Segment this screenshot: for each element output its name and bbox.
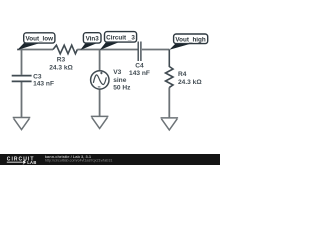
footer info text [45,154,113,163]
capacitor C4 [138,42,141,62]
svg-text:Vin3: Vin3 [86,35,100,42]
footer bar [0,154,220,165]
resistor R4 [166,50,174,88]
svg-text:143 nF: 143 nF [33,80,54,87]
node flag Vin3 pointer [80,43,97,50]
wire middle branch upper [99,50,101,72]
footer logo CIRCUIT LAB [7,156,37,165]
svg-text:C4: C4 [135,62,144,69]
label C3 value [33,73,54,87]
wire left branch upper [21,50,23,75]
capacitor C3 [12,76,32,82]
svg-text:Vout_low: Vout_low [26,35,54,42]
ground left [13,118,31,130]
svg-text:C3: C3 [33,73,42,80]
wire top horizontal segment left [17,49,53,51]
label R3 value [49,57,73,72]
node flag Circuit _3 [105,32,137,42]
svg-text:24.3 kΩ: 24.3 kΩ [49,64,73,71]
svg-text:http://circuitlab.com/c4vt1a87: http://circuitlab.com/c4vt1a87qx21v/lab3… [45,159,113,163]
svg-text:Vout_high: Vout_high [175,36,205,43]
node flag Vout_high pointer [169,44,191,50]
svg-text:50 Hz: 50 Hz [113,84,131,91]
ground right [161,118,179,130]
svg-text:24.3 kΩ: 24.3 kΩ [178,79,202,86]
node flag Vout_low pointer [17,43,40,50]
wire right branch lower [168,87,170,117]
label R4 value [178,71,202,86]
svg-text:sine: sine [113,77,127,84]
resistor R3 [53,45,77,54]
svg-text:Circuit _3: Circuit _3 [106,34,135,41]
svg-text:V3: V3 [113,69,121,76]
label C4 value [129,62,150,77]
svg-text:R4: R4 [178,71,187,78]
node flag Vout_low [24,33,55,43]
voltage source V3 [91,71,109,89]
wire top horizontal segment right [142,49,170,51]
node flag Vin3 [83,33,101,43]
wire middle branch lower [99,89,101,116]
wire left branch lower [21,82,23,117]
node flag Vout_high [174,34,208,44]
label V3 value [113,69,131,91]
node flag Circuit _3 pointer [100,42,119,50]
wire top horizontal segment middle [77,49,137,51]
svg-text:R3: R3 [57,57,66,64]
svg-text:LAB: LAB [27,160,36,165]
svg-text:143 nF: 143 nF [129,70,150,77]
ground middle [91,116,109,128]
